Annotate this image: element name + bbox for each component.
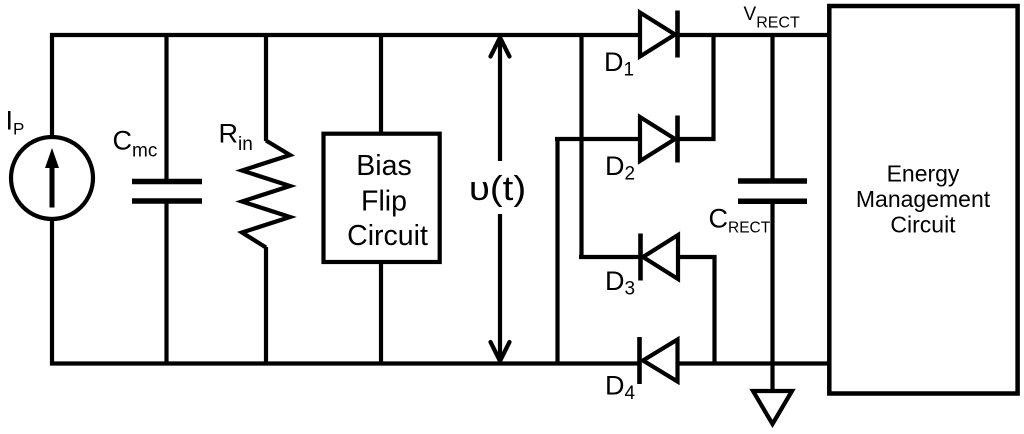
wire Crect branch upper xyxy=(770,33,774,181)
wire D2 anode xyxy=(555,137,641,141)
wire bias flip branch upper xyxy=(379,33,383,134)
capacitor Crect bottom plate xyxy=(738,199,807,205)
wire bottom rail right section (ground net) xyxy=(677,361,830,365)
diode D4 cathode bar xyxy=(637,337,642,384)
wire Cmc branch upper xyxy=(164,33,168,181)
wire D2 cathode to V_RECT vertical xyxy=(711,33,715,141)
wire AC2 vertical (D2 anode to bottom rail) xyxy=(555,137,559,366)
svg-text:Circuit: Circuit xyxy=(890,212,956,238)
svg-text:Energy: Energy xyxy=(887,161,960,187)
diode D2 cathode bar xyxy=(675,116,680,163)
wire bias flip branch lower xyxy=(379,262,383,366)
diode D1 cathode bar xyxy=(675,11,680,58)
current source IP arrow shaft xyxy=(50,164,55,208)
wire Crect branch lower to ground xyxy=(770,201,774,391)
svg-text:Circuit: Circuit xyxy=(347,220,428,252)
wire Rin branch upper xyxy=(264,33,268,141)
wire D3 cathode xyxy=(579,255,642,259)
bias flip circuit box xyxy=(324,134,440,262)
capacitor Crect top plate xyxy=(738,178,807,184)
capacitor Cmc bottom plate xyxy=(132,198,202,204)
voltage arrow v(t) bottom head xyxy=(491,342,510,361)
svg-text:υ(t): υ(t) xyxy=(469,169,526,207)
wire top rail right section (V_RECT net) xyxy=(676,33,830,37)
current source IP circle xyxy=(11,137,93,219)
energy management circuit box xyxy=(829,6,1017,394)
current source IP arrow head xyxy=(45,148,59,168)
svg-text:Management: Management xyxy=(856,186,991,212)
wire Rin branch lower xyxy=(264,247,268,366)
diode D3 triangle xyxy=(643,235,678,279)
wire D3 anode to ground rail vertical xyxy=(712,255,716,366)
diode D4 triangle xyxy=(643,340,678,382)
ground symbol xyxy=(753,391,792,424)
diode D1 triangle xyxy=(640,13,675,57)
wire D3 anode xyxy=(676,255,717,259)
wire left branch lower xyxy=(50,219,54,366)
wire top rail left section xyxy=(50,33,641,37)
resistor Rin zigzag xyxy=(242,141,290,248)
voltage arrow v(t) top head xyxy=(491,38,510,57)
wire Cmc branch lower xyxy=(164,201,168,366)
voltage arrow v(t) upper shaft xyxy=(498,37,502,161)
diode D3 cathode bar xyxy=(638,234,643,281)
wire bottom rail left section xyxy=(50,361,641,365)
wire left branch upper xyxy=(50,33,54,137)
svg-text:Flip: Flip xyxy=(361,186,407,218)
diode D2 triangle xyxy=(640,117,675,161)
wire D2 cathode xyxy=(676,137,716,141)
capacitor Cmc top plate xyxy=(132,179,202,185)
voltage arrow v(t) lower shaft xyxy=(498,214,502,362)
svg-text:Bias: Bias xyxy=(356,150,411,182)
wire AC1 vertical (top rail to D3 cathode) xyxy=(579,33,583,259)
